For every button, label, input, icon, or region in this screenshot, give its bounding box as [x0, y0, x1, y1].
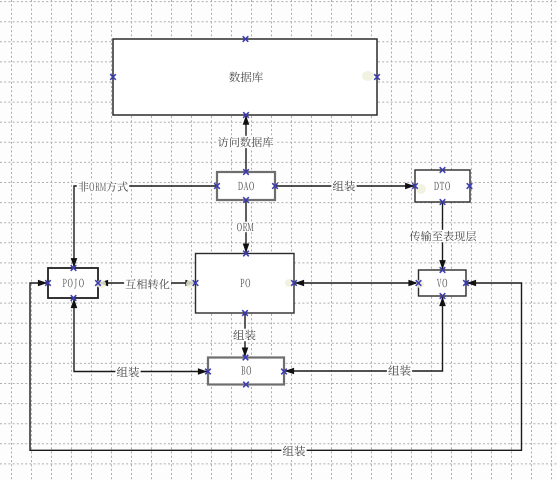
- wire outer loop POJO to VO (组装): [30, 280, 522, 451]
- box BO: [208, 358, 284, 385]
- wire DAO to PO (ORM): [243, 200, 250, 253]
- connection points VO: [416, 267, 469, 299]
- label 组装 (PO to BO): [232, 329, 257, 342]
- label 组装 (DAO to DTO): [331, 180, 356, 193]
- connection points 数据库: [110, 36, 380, 118]
- box 数据库 (database): [113, 39, 377, 115]
- wire POJO to BO (组装, arrows both ends): [71, 298, 208, 375]
- label 非ORM方式: [77, 180, 129, 192]
- label 组装 (POJO to BO): [115, 366, 140, 379]
- connection points PO: [193, 251, 297, 316]
- box DAO: [217, 172, 275, 200]
- wire PO to VO (double arrow): [294, 280, 419, 287]
- label 传输至表现层: [408, 230, 477, 243]
- wire DAO to 数据库 (访问数据库): [243, 115, 250, 172]
- box DTO: [415, 170, 470, 202]
- connection points BO: [205, 355, 287, 388]
- connection points DAO: [214, 169, 278, 203]
- wire VO to BO (组装, arrows both ends): [285, 297, 446, 375]
- box POJO: [48, 268, 98, 298]
- wire PO to BO (组装): [242, 313, 249, 357]
- box PO: [196, 254, 295, 314]
- wire DAO to POJO (non-ORM path): [71, 186, 217, 268]
- wire DTO to VO: [439, 202, 446, 270]
- wire DAO to DTO: [275, 183, 415, 190]
- label 组装 (outer loop): [281, 445, 306, 458]
- connection points DTO: [412, 167, 472, 205]
- label 组装 (VO to BO): [387, 364, 412, 377]
- label 互相转化: [124, 278, 171, 290]
- label 访问数据库: [217, 136, 275, 148]
- label ORM: [236, 222, 256, 233]
- box VO: [419, 270, 467, 296]
- wire POJO to PO (double arrow): [98, 280, 196, 287]
- connection points POJO: [45, 265, 101, 301]
